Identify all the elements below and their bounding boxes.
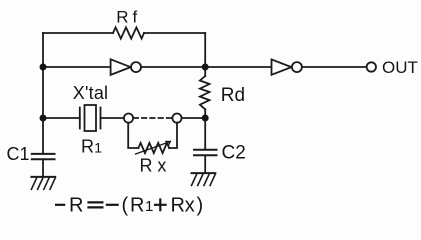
svg-text:R: R bbox=[171, 194, 185, 216]
wire top-left horizontal bbox=[43, 32, 113, 34]
svg-text:1: 1 bbox=[145, 198, 153, 215]
node dot left rail / crystal row bbox=[40, 115, 47, 122]
node dot right rail / U1 output bbox=[202, 64, 209, 71]
svg-text:Rd: Rd bbox=[221, 85, 245, 106]
svg-text:R: R bbox=[140, 155, 153, 175]
wire inverter U1 input bbox=[43, 66, 111, 68]
wire C2 to ground bbox=[204, 156, 206, 172]
op-amp inverter U2 bbox=[272, 59, 302, 74]
svg-text:C1: C1 bbox=[7, 144, 30, 164]
svg-text:R: R bbox=[81, 136, 94, 156]
svg-text:R: R bbox=[116, 8, 128, 27]
wire crystal to node A bbox=[101, 117, 124, 119]
terminal OUT open circle bbox=[367, 62, 376, 71]
svg-text:1: 1 bbox=[94, 139, 102, 155]
wire dashed A to B bbox=[134, 117, 173, 119]
resistor Rd bbox=[200, 76, 210, 109]
wire inverter U2 input bbox=[205, 66, 271, 68]
node B open circle bbox=[172, 114, 181, 123]
op-amp inverter U1 bbox=[111, 59, 141, 75]
resistor Rx arrow bbox=[136, 141, 171, 154]
svg-text:R: R bbox=[130, 194, 144, 216]
svg-text:R: R bbox=[69, 194, 83, 216]
svg-text:f: f bbox=[133, 8, 138, 27]
wire Rx bypass left bbox=[128, 123, 138, 148]
wire crystal row left bbox=[43, 117, 80, 119]
ground under C1 bbox=[31, 177, 55, 189]
capacitor C1 bbox=[32, 154, 55, 159]
svg-text:(: ( bbox=[122, 194, 129, 216]
wire Rx bypass right bbox=[169, 123, 177, 148]
svg-text:): ) bbox=[197, 194, 204, 216]
wire right rail top bbox=[204, 33, 206, 76]
wire inverter U2 output bbox=[302, 66, 367, 68]
crystal X'tal bbox=[80, 105, 101, 131]
svg-text:C2: C2 bbox=[222, 143, 246, 164]
wire left rail bbox=[42, 33, 44, 153]
wire inverter U1 output bbox=[141, 66, 205, 68]
resistor Rf bbox=[113, 27, 144, 38]
wire right rail middle bbox=[204, 109, 206, 149]
formula -R = -(R1+Rx) bbox=[55, 194, 203, 216]
label Rx value bbox=[140, 155, 167, 175]
wire C1 to ground bbox=[42, 160, 44, 176]
label R1 value bbox=[81, 136, 102, 156]
ground under C2 bbox=[192, 173, 216, 185]
svg-text:x: x bbox=[185, 194, 195, 216]
svg-text:OUT: OUT bbox=[382, 58, 418, 77]
svg-text:x: x bbox=[157, 155, 166, 175]
node dot left rail / U1 input bbox=[40, 64, 47, 71]
wire node B to right rail bbox=[182, 117, 206, 119]
wire top-right horizontal bbox=[144, 32, 205, 34]
label Rf value bbox=[116, 8, 137, 27]
svg-text:X'tal: X'tal bbox=[73, 83, 108, 103]
node dot right rail / crystal row bbox=[202, 115, 209, 122]
resistor Rx bbox=[138, 143, 169, 153]
capacitor C2 bbox=[194, 150, 217, 156]
node A open circle bbox=[124, 114, 133, 123]
